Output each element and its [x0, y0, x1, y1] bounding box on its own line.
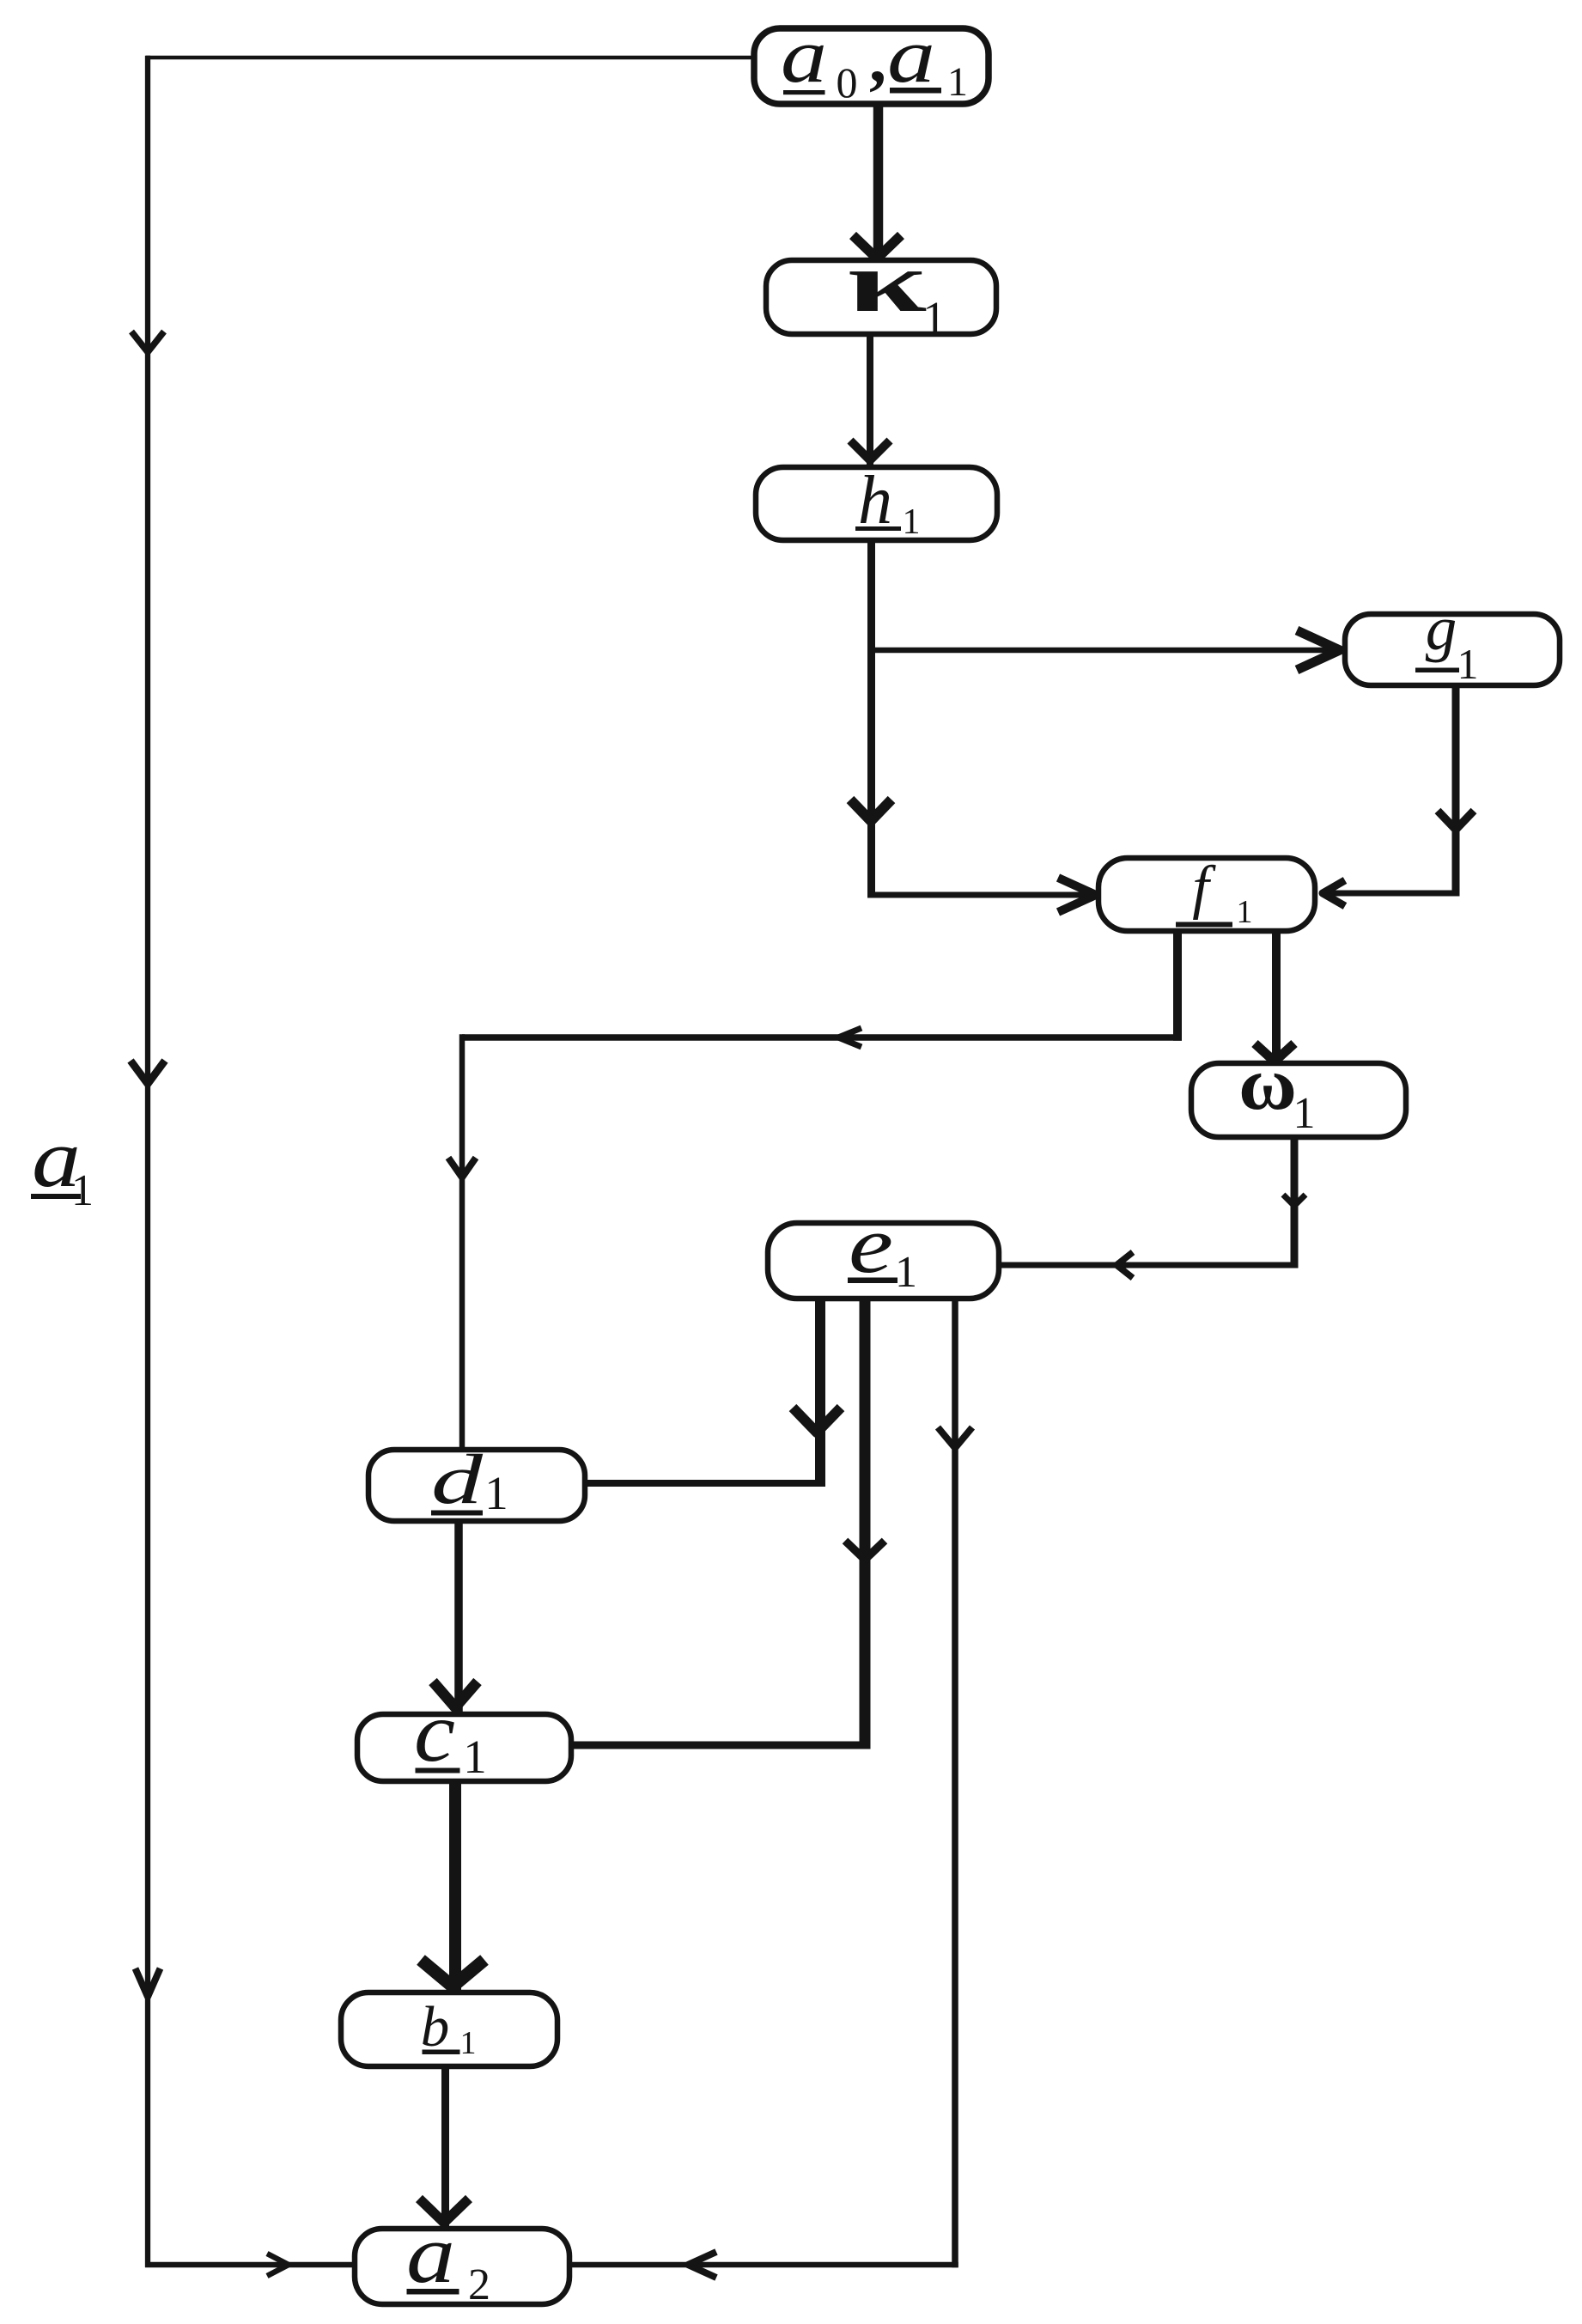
wire h1 branch to g1 — [871, 648, 1336, 654]
svg-text:κ: κ — [848, 234, 928, 330]
svg-text:b: b — [421, 1995, 450, 2059]
svg-text:1: 1 — [1237, 894, 1253, 930]
svg-text:,: , — [869, 21, 886, 97]
arrowhead into a2 top — [419, 2199, 469, 2223]
svg-text:c: c — [414, 1684, 455, 1780]
wire g1 to f1 horizontal — [1321, 891, 1459, 897]
wire d1 to c1 — [454, 1519, 463, 1713]
arrowhead left rail middle — [131, 1061, 165, 1084]
wire w1 down — [1291, 1135, 1299, 1268]
wire h1 down — [867, 538, 875, 898]
wire e1 out line1 — [815, 1297, 825, 1487]
wire c1 to b1 thick — [449, 1780, 461, 1991]
wire f1 right down to w1 — [1272, 929, 1281, 1061]
wire f1 long horizontal left — [462, 1034, 1182, 1041]
arrowhead into k1 — [853, 235, 901, 259]
svg-text:1: 1 — [947, 59, 968, 105]
wire f1 left down — [1173, 929, 1182, 1041]
arrowhead into g1 — [1297, 630, 1340, 670]
arrowhead e1 line1 — [793, 1408, 841, 1433]
arrowhead into f1 right — [1323, 880, 1345, 906]
node k1 box — [766, 260, 996, 334]
arrowhead into h1 — [850, 441, 890, 460]
svg-text:1: 1 — [1293, 1089, 1316, 1138]
svg-text:1: 1 — [922, 292, 946, 344]
wire left rail bottom into a2 — [145, 2262, 355, 2268]
svg-text:d: d — [431, 1439, 484, 1518]
arrowhead into c1 — [433, 1682, 478, 1707]
arrowhead h1 down mid — [850, 800, 891, 821]
wire c1 right horizontal — [571, 1742, 871, 1749]
node d1 box — [368, 1450, 585, 1521]
wire w1 to e1 horizontal — [1001, 1262, 1298, 1268]
svg-text:ω: ω — [1238, 1043, 1297, 1126]
arrowhead w1 down mid — [1283, 1195, 1305, 1206]
svg-text:a: a — [887, 14, 935, 99]
node w1 box — [1191, 1063, 1406, 1137]
wire a0a1 to k1 thick — [873, 102, 884, 256]
svg-text:2: 2 — [468, 2260, 490, 2309]
wire g1 down — [1452, 684, 1460, 897]
wire k1 to h1 — [867, 332, 873, 469]
wire left rail a1 vertical — [145, 56, 150, 2267]
node a2 box — [355, 2229, 569, 2304]
arrowhead f1 long horizontal — [838, 1028, 861, 1047]
svg-text:a: a — [781, 14, 827, 99]
node c1 box — [357, 1714, 571, 1781]
wire left-mid vertical to d1 — [459, 1034, 465, 1453]
svg-text:0: 0 — [837, 58, 858, 106]
node f1 box — [1098, 858, 1315, 931]
wire b1 to a2 — [441, 2065, 449, 2226]
arrowhead into a2 right — [688, 2252, 716, 2278]
wire e1 out line3 long — [952, 1297, 958, 2267]
node b1 box — [341, 1992, 557, 2066]
svg-text:1: 1 — [903, 502, 921, 542]
svg-text:1: 1 — [484, 1467, 508, 1519]
svg-text:g: g — [1426, 593, 1457, 663]
wire e1 out line2 — [860, 1297, 871, 1749]
arrowhead into w1 — [1255, 1043, 1294, 1062]
arrowhead to d1 mid — [448, 1158, 476, 1177]
svg-text:1: 1 — [895, 1248, 917, 1297]
node a0,a1 box — [754, 28, 989, 104]
arrowhead into a2 left — [267, 2254, 289, 2276]
arrowhead left rail upper — [131, 332, 164, 352]
svg-text:a: a — [406, 2208, 455, 2300]
svg-text:1: 1 — [71, 1166, 94, 1215]
node g1 box — [1345, 614, 1560, 685]
arrowhead into b1 — [421, 1960, 484, 1986]
svg-text:1: 1 — [463, 1731, 487, 1783]
wire h1 to f1 horizontal — [871, 892, 1092, 898]
node e1 box — [768, 1223, 999, 1299]
arrowhead into f1 left — [1058, 878, 1096, 912]
wire d1 right horizontal — [585, 1480, 825, 1487]
wire bottom right horizontal to a2 — [569, 2262, 958, 2268]
arrowhead e1 line3 — [938, 1427, 972, 1448]
arrowhead left rail lower — [136, 1968, 161, 1997]
node h1 box — [756, 467, 997, 540]
svg-text:1: 1 — [1457, 640, 1479, 688]
arrowhead g1 down mid — [1438, 811, 1474, 830]
svg-text:1: 1 — [460, 2025, 477, 2061]
wire a0a1 to left rail top — [146, 56, 754, 60]
svg-text:e: e — [849, 1201, 893, 1290]
arrowhead e1 line2 — [845, 1541, 885, 1560]
arrowhead into e1 — [1117, 1252, 1133, 1278]
